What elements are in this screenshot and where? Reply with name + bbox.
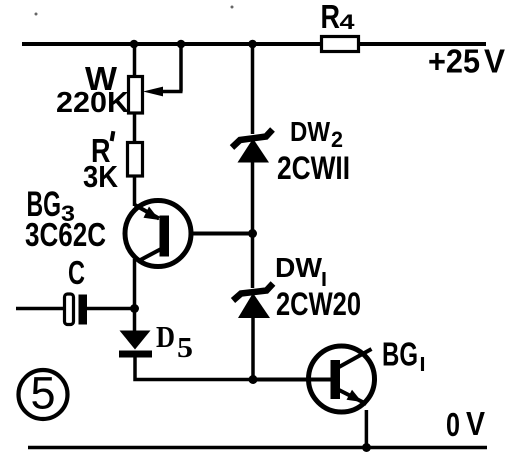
svg-text:5: 5 — [31, 368, 56, 419]
svg-text:+25: +25 — [428, 43, 480, 80]
svg-text:0: 0 — [446, 406, 460, 443]
svg-text:3K: 3K — [83, 159, 119, 194]
svg-text:V: V — [484, 43, 505, 80]
svg-text:C: C — [68, 254, 85, 291]
svg-text:4: 4 — [340, 11, 355, 34]
svg-text:V: V — [466, 405, 485, 442]
svg-text:D: D — [156, 319, 175, 354]
svg-text:I: I — [420, 354, 426, 376]
svg-text:3C62C: 3C62C — [25, 216, 106, 253]
svg-text:DW: DW — [275, 252, 323, 283]
svg-text:2: 2 — [331, 127, 343, 152]
svg-text:220K: 220K — [56, 87, 129, 119]
svg-text:BG: BG — [382, 336, 418, 373]
svg-text:2CWII: 2CWII — [277, 150, 350, 186]
svg-text:DW: DW — [290, 116, 330, 147]
svg-text:5: 5 — [177, 333, 193, 364]
svg-text:R: R — [321, 0, 341, 35]
svg-text:2CW20: 2CW20 — [276, 286, 361, 322]
